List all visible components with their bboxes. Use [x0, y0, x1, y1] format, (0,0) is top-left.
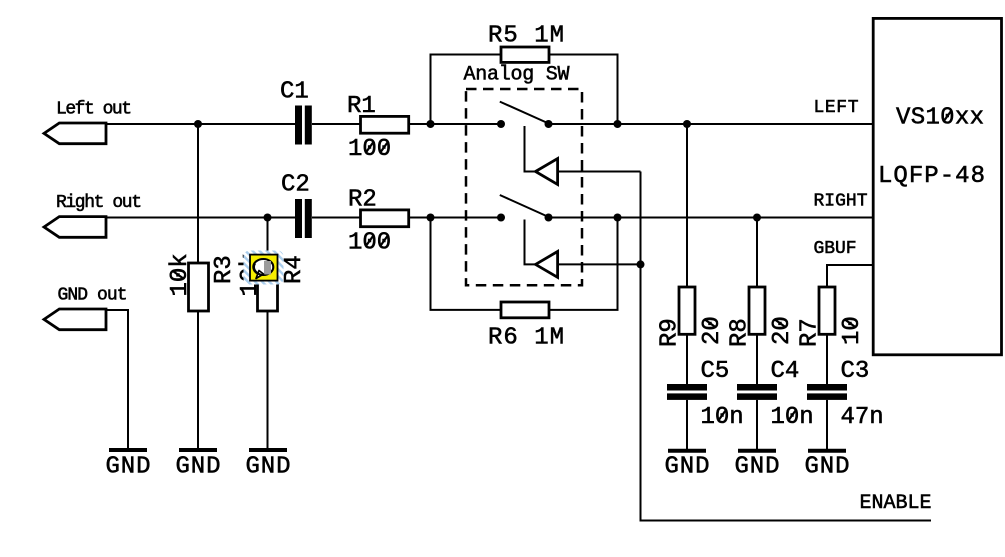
- svg-text:GND: GND: [176, 454, 221, 481]
- resistor R1: [347, 93, 409, 163]
- resistor R7: [797, 287, 867, 384]
- ground GND6: [805, 451, 850, 481]
- resistor R6: [488, 302, 564, 352]
- switch S1 control wire: [525, 126, 536, 172]
- svg-text:LEFT: LEFT: [814, 98, 859, 118]
- svg-text:10n: 10n: [701, 404, 744, 431]
- resistor R5: [488, 23, 564, 63]
- junction LEFT/R9: [683, 120, 691, 128]
- svg-text:C5: C5: [701, 358, 730, 385]
- svg-text:R6 1M: R6 1M: [488, 325, 564, 352]
- wire ENABLE net: [641, 172, 932, 521]
- svg-text:GND: GND: [735, 454, 780, 481]
- connector Right out: [44, 217, 106, 238]
- junction LEFT/R3: [194, 120, 202, 128]
- svg-text:GND: GND: [805, 454, 850, 481]
- junction RIGHT/R8: [753, 214, 761, 222]
- wire LEFT net: arrow to C1: [106, 123, 295, 125]
- svg-text:47n: 47n: [841, 404, 884, 431]
- switch S2 control wire: [525, 220, 536, 265]
- svg-text:C2: C2: [281, 172, 310, 199]
- switch S2 blade: [500, 195, 548, 216]
- connector Left out: [44, 123, 106, 144]
- resistor R5 bypass wire left: [431, 55, 502, 125]
- IC U2 VS10xx: [873, 18, 1001, 354]
- wire LEFT net: C1 to R1: [312, 123, 361, 125]
- svg-text:20: 20: [769, 316, 796, 345]
- ground GND3: [246, 450, 291, 481]
- wire RIGHT net: R2 to switch contact: [409, 217, 501, 219]
- buffer U1A: [536, 159, 558, 185]
- svg-text:GND: GND: [246, 454, 291, 481]
- junction LEFT/R5 bypass left: [427, 120, 435, 128]
- capacitor C1: [280, 79, 312, 145]
- svg-text:10: 10: [839, 316, 866, 345]
- svg-text:Analog SW: Analog SW: [464, 64, 570, 87]
- svg-text:R3: R3: [211, 255, 238, 284]
- ground GND2: [176, 450, 221, 481]
- svg-text:Left out: Left out: [56, 100, 132, 120]
- ground GND1: [106, 450, 151, 481]
- svg-text:10n: 10n: [771, 404, 814, 431]
- connector GND out: [44, 309, 106, 330]
- resistor R9: [657, 124, 727, 384]
- wire U1B output: [558, 263, 641, 265]
- switch S2 contacts: [497, 214, 505, 222]
- svg-text:GND out: GND out: [58, 286, 128, 306]
- svg-text:100: 100: [348, 136, 391, 163]
- svg-text:R7: R7: [797, 318, 824, 347]
- ground GND5: [735, 451, 780, 481]
- wire GND out to ground: [106, 310, 128, 449]
- junction RIGHT/R6 bypass right: [614, 214, 622, 222]
- wire RIGHT net: arrow to C2: [106, 217, 295, 219]
- svg-text:VS10xx: VS10xx: [896, 105, 984, 132]
- wire RIGHT net: switch to VS10xx pin RIGHT: [549, 217, 874, 219]
- highlight marker icon on R4: [244, 251, 284, 285]
- switch S1 contacts: [497, 120, 505, 128]
- svg-text:C1: C1: [280, 79, 309, 106]
- wire U1A output: [558, 171, 641, 173]
- svg-text:Right out: Right out: [56, 193, 142, 213]
- svg-text:GBUF: GBUF: [814, 239, 857, 259]
- svg-text:ENABLE: ENABLE: [860, 492, 932, 515]
- resistor R6 bypass wire left: [431, 218, 502, 310]
- switch S1 blade: [500, 102, 548, 123]
- svg-text:RIGHT: RIGHT: [814, 192, 868, 212]
- svg-text:10k: 10k: [167, 253, 194, 296]
- svg-text:R9: R9: [657, 318, 684, 347]
- wire LEFT net: R1 to switch contact: [409, 123, 501, 125]
- junction ENABLE: [637, 260, 645, 268]
- junction RIGHT/R6 bypass left: [427, 214, 435, 222]
- svg-text:GND: GND: [106, 454, 151, 481]
- capacitor C3: [807, 358, 884, 449]
- svg-text:20: 20: [699, 316, 726, 345]
- analog switch box U1: [464, 64, 583, 286]
- svg-text:C4: C4: [771, 358, 800, 385]
- svg-text:R2: R2: [348, 187, 377, 214]
- svg-text:100: 100: [348, 230, 391, 257]
- svg-text:GND: GND: [665, 454, 710, 481]
- svg-text:R5 1M: R5 1M: [488, 23, 564, 50]
- ground GND4: [665, 451, 710, 481]
- junction RIGHT/R4: [264, 214, 272, 222]
- junction LEFT/R5 bypass right: [614, 120, 622, 128]
- wire LEFT net: switch to VS10xx pin LEFT: [549, 123, 874, 125]
- buffer U1B: [536, 252, 558, 278]
- wire GBUF net: [827, 265, 873, 287]
- resistor R5 bypass wire right: [549, 55, 618, 125]
- svg-text:R8: R8: [727, 318, 754, 347]
- resistor R4: [237, 218, 308, 450]
- svg-text:C3: C3: [841, 358, 870, 385]
- resistor R3: [167, 124, 238, 449]
- wire RIGHT net: C2 to R2: [312, 217, 361, 219]
- svg-text:LQFP-48: LQFP-48: [878, 163, 985, 190]
- resistor R6 bypass wire right: [549, 218, 618, 310]
- svg-text:R1: R1: [347, 93, 376, 120]
- capacitor C2: [281, 172, 312, 239]
- svg-text:R4: R4: [281, 255, 308, 284]
- capacitor C5: [667, 358, 744, 449]
- resistor R8: [727, 218, 797, 385]
- capacitor C4: [737, 358, 814, 449]
- resistor R2: [348, 187, 409, 257]
